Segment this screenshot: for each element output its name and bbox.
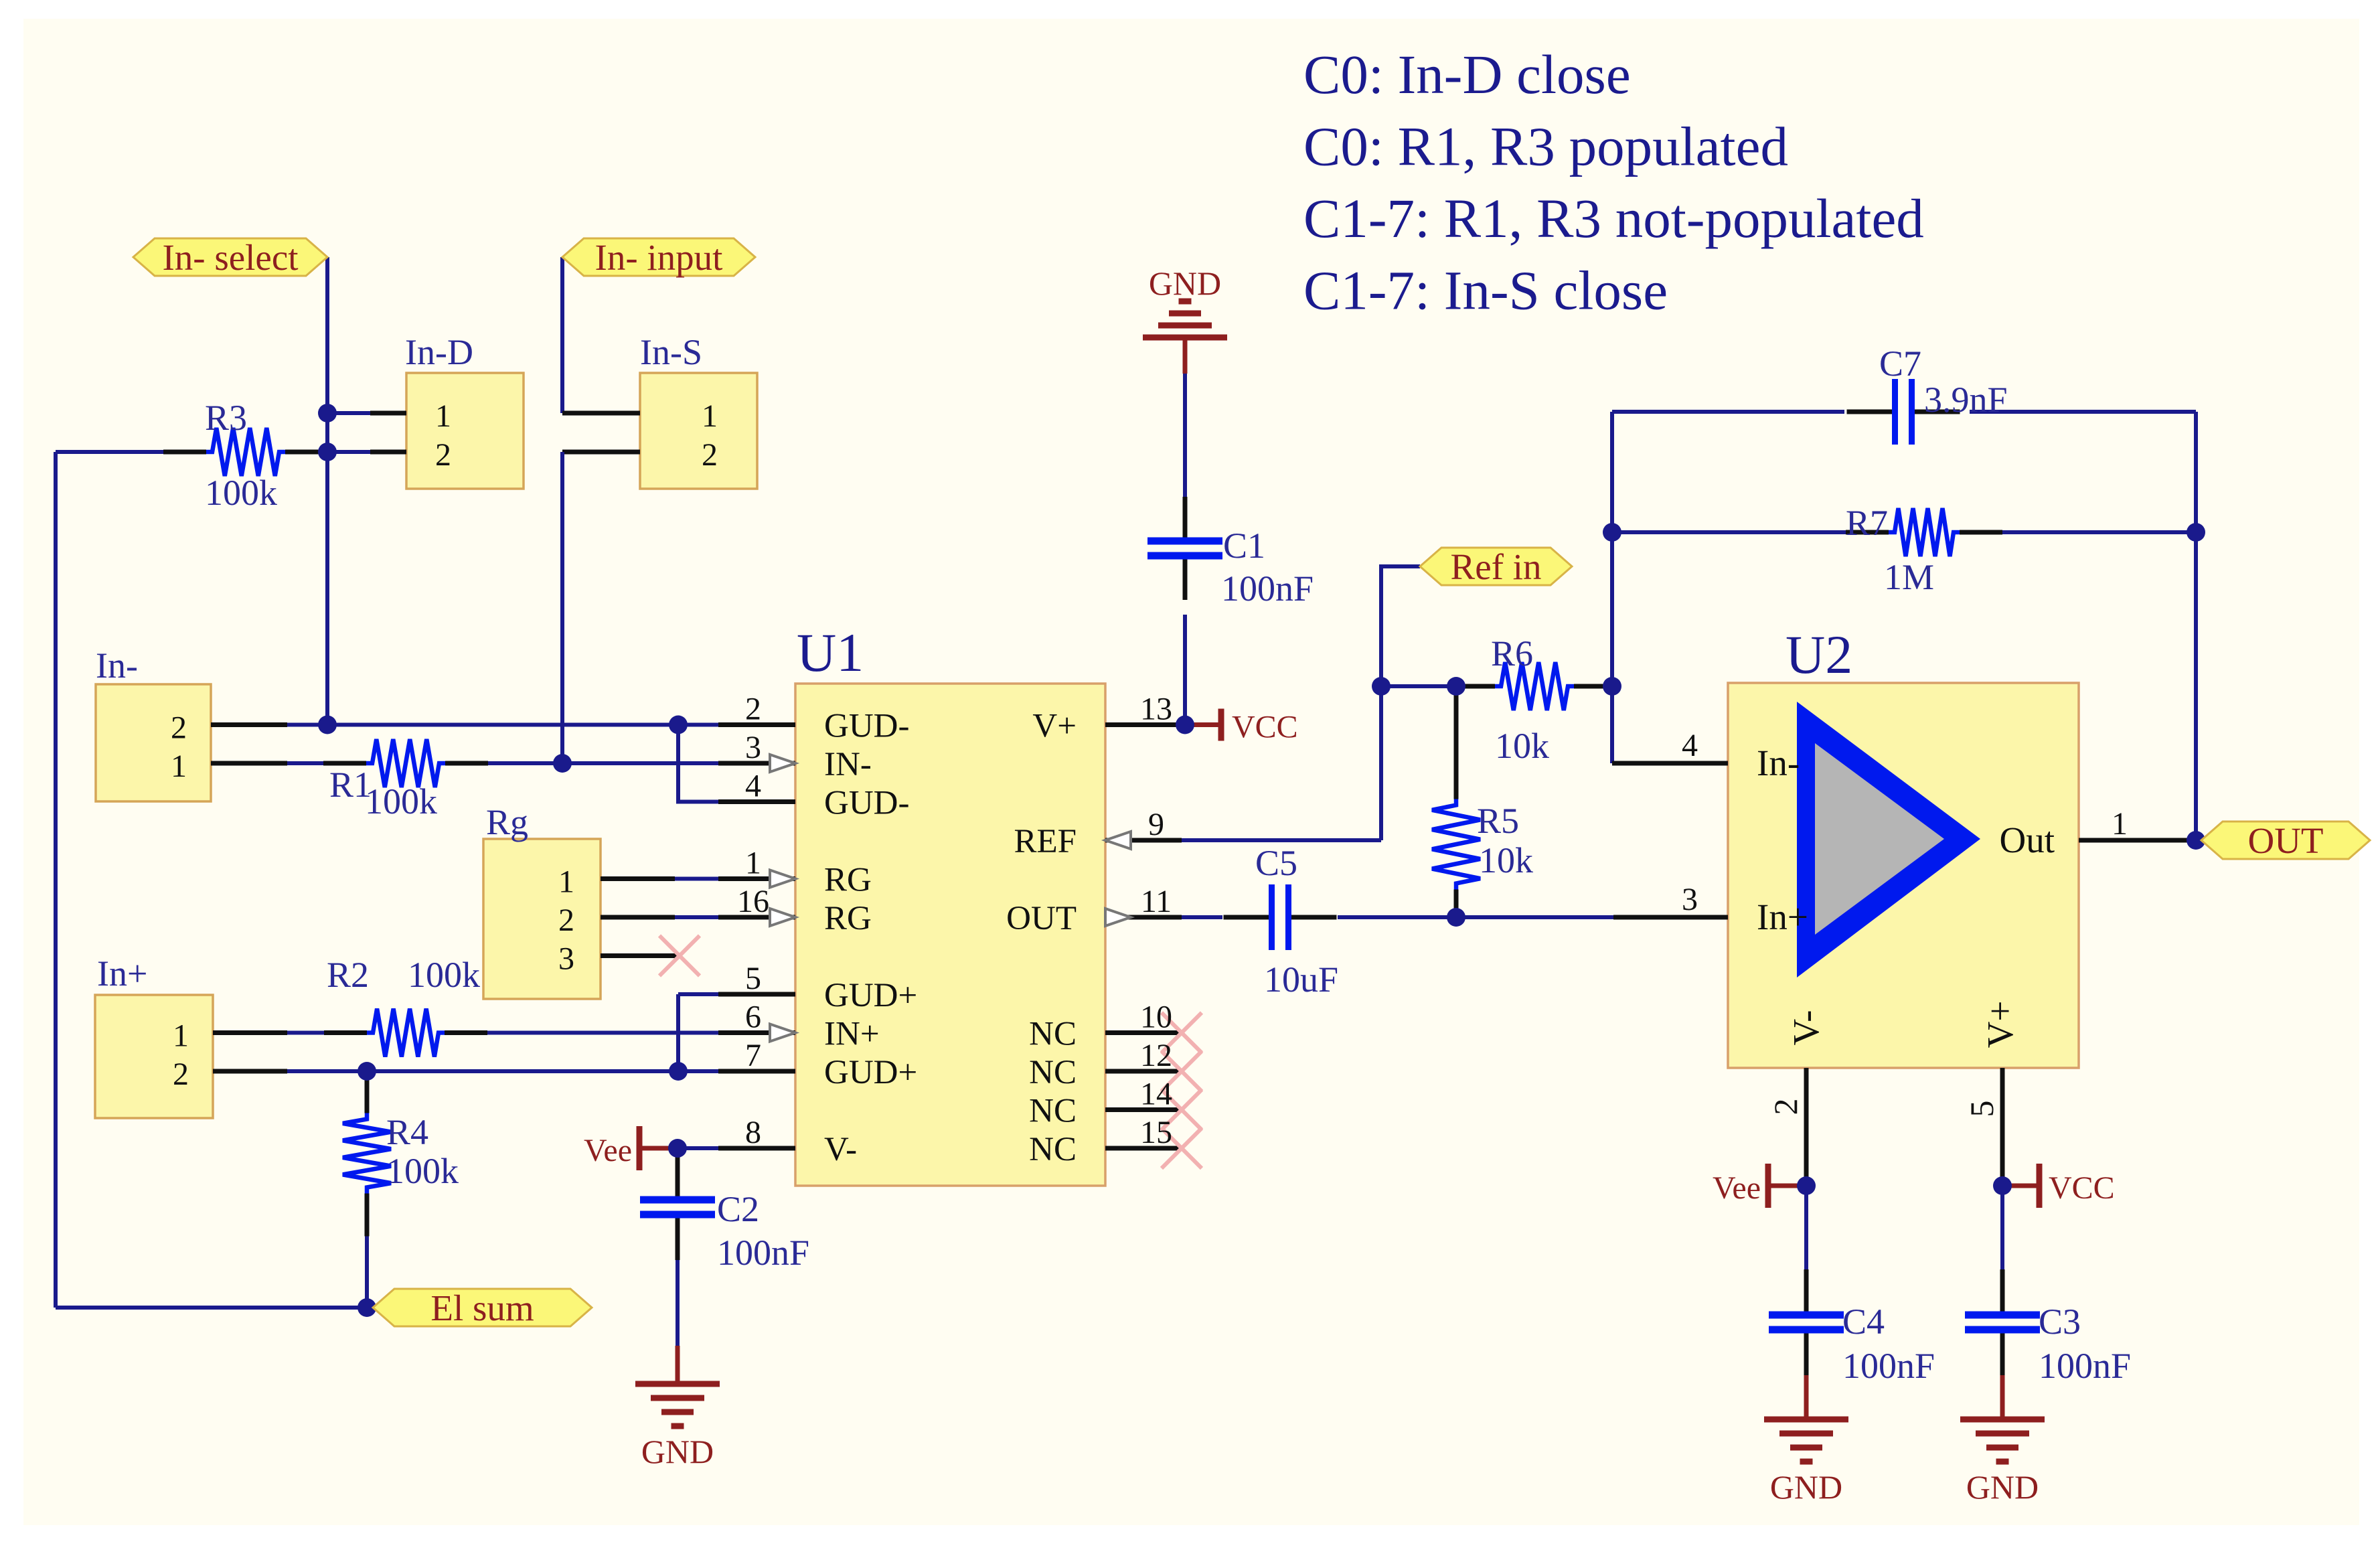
svg-text:100k: 100k — [365, 781, 437, 822]
value R5 10k — [1479, 840, 1533, 880]
arrow U1 pin6 input — [770, 1024, 795, 1042]
label In- — [96, 645, 138, 686]
wire Ref vertical — [1381, 566, 1420, 840]
svg-text:In-S: In-S — [640, 332, 702, 372]
wire In-D pin1 stub — [327, 411, 370, 415]
wire R2 to U1 pin6 — [479, 1031, 718, 1035]
svg-text:In-: In- — [1757, 742, 1800, 783]
svg-text:GUD-: GUD- — [824, 708, 909, 745]
wire In-S pin1 stub — [562, 411, 640, 416]
wire R7 right — [2002, 530, 2196, 534]
wire Rg pin1 to U1 pin1 — [675, 877, 718, 881]
U1 pin 9 stub — [1105, 838, 1182, 843]
svg-text:C0: R1, R3 populated: C0: R1, R3 populated — [1303, 116, 1788, 177]
svg-text:R3: R3 — [205, 398, 247, 438]
node In-select/R3/In-D2 — [318, 443, 337, 461]
resistor R2 — [324, 1009, 487, 1057]
resistor R7 — [1846, 508, 2002, 556]
svg-text:NC: NC — [1029, 1054, 1077, 1091]
svg-text:Rg: Rg — [486, 802, 528, 842]
svg-text:Vee: Vee — [584, 1133, 632, 1168]
node Vee/C4 — [1797, 1176, 1816, 1195]
svg-text:RG: RG — [824, 900, 872, 937]
label In-S — [640, 332, 702, 372]
wire In- pin2 to U1 pin2 — [287, 723, 718, 727]
node VCC/C1/pin13 — [1176, 716, 1194, 734]
wire U2 pin5 stub — [2000, 1068, 2005, 1186]
wire C1 lower to U1 pin13 — [1183, 615, 1187, 725]
label C7 — [1879, 343, 1921, 384]
svg-text:3.9nF: 3.9nF — [1924, 380, 2008, 420]
wire U2 pin4 stub — [1612, 761, 1728, 766]
node OUT — [2187, 831, 2205, 850]
svg-text:100k: 100k — [205, 473, 277, 513]
svg-text:2: 2 — [702, 437, 718, 473]
In-D pin numbers — [435, 398, 451, 473]
ground GND bottom C2 — [635, 1384, 720, 1470]
svg-text:1: 1 — [2112, 806, 2128, 842]
value R3 100k — [205, 473, 277, 513]
connector Rg box — [483, 839, 601, 999]
svg-text:GND: GND — [1149, 264, 1221, 302]
svg-text:1: 1 — [173, 1018, 189, 1054]
svg-text:OUT: OUT — [2247, 820, 2323, 861]
svg-text:V+: V+ — [1032, 708, 1077, 745]
svg-text:U1: U1 — [797, 622, 864, 683]
label C3 — [2039, 1302, 2081, 1342]
wire In- pin1 to R1 — [287, 761, 329, 765]
svg-text:R7: R7 — [1846, 503, 1888, 543]
label C1 — [1223, 526, 1265, 566]
svg-text:12: 12 — [1140, 1038, 1172, 1073]
svg-text:In- select: In- select — [162, 237, 298, 278]
svg-text:GUD+: GUD+ — [824, 1054, 917, 1091]
wire C3 gnd red — [2000, 1375, 2005, 1419]
port flag In- select — [133, 237, 327, 278]
wire In- input vertical upper — [560, 257, 564, 413]
port flag OUT — [2201, 820, 2370, 861]
resistor R6 — [1452, 662, 1617, 710]
arrow U1 pin16 input — [770, 909, 795, 926]
wire C2 to GND — [676, 1260, 680, 1347]
svg-text:100nF: 100nF — [1842, 1346, 1935, 1386]
svg-text:14: 14 — [1140, 1077, 1172, 1112]
U2 pin name In+ — [1757, 896, 1808, 937]
value R1 100k — [365, 781, 437, 822]
label R2 — [327, 955, 369, 995]
svg-text:C4: C4 — [1842, 1302, 1885, 1342]
svg-text:4: 4 — [745, 769, 761, 804]
wire VCC node to C3 — [2000, 1186, 2004, 1269]
node R7 right — [2187, 523, 2205, 542]
svg-text:In+: In+ — [97, 953, 147, 994]
connector In- box — [96, 684, 211, 801]
wire In+ pin1 to R2 — [287, 1031, 333, 1035]
wire In-D pin1 stub black — [370, 411, 406, 416]
U1 pin 8 stub — [718, 1146, 795, 1151]
svg-text:2: 2 — [745, 692, 761, 727]
svg-text:GUD+: GUD+ — [824, 977, 917, 1014]
value R2 100k — [408, 955, 480, 995]
svg-text:U2: U2 — [1786, 624, 1852, 685]
op-amp U2 box — [1728, 683, 2079, 1068]
svg-text:8: 8 — [745, 1115, 761, 1150]
svg-text:VCC: VCC — [2049, 1170, 2115, 1206]
arrow U1 pin9 input — [1105, 832, 1131, 849]
svg-text:Vee: Vee — [1713, 1170, 1761, 1206]
resistor R5 — [1432, 687, 1480, 917]
svg-text:5: 5 — [745, 961, 761, 996]
capacitor C1 — [1147, 497, 1222, 600]
U1 pin 14 stub — [1105, 1107, 1182, 1112]
notes text block — [1303, 44, 1924, 321]
value R4 100k — [386, 1151, 459, 1191]
svg-text:16: 16 — [737, 884, 769, 919]
U2 pin name Out — [2000, 819, 2055, 860]
wire C4 gnd red — [1804, 1375, 1809, 1419]
wire R4 bottom to El sum — [365, 1235, 369, 1308]
svg-text:7: 7 — [745, 1038, 761, 1073]
label U2 — [1786, 624, 1852, 685]
U1 pin 12 stub — [1105, 1069, 1182, 1074]
svg-text:1: 1 — [171, 749, 187, 784]
wire C5 to R5 node — [1338, 915, 1613, 919]
value C1 100nF — [1221, 568, 1314, 609]
wire R7 left — [1612, 530, 1846, 534]
svg-text:V-: V- — [1786, 1010, 1826, 1046]
wire In-S pin2 stub — [562, 450, 640, 455]
node R6/feedback — [1603, 677, 1621, 696]
svg-text:NC: NC — [1029, 1093, 1077, 1130]
label U1 — [797, 622, 864, 683]
wire feedback left vertical — [1610, 412, 1614, 763]
node R6/R5 — [1447, 677, 1465, 696]
svg-text:6: 6 — [745, 1000, 761, 1035]
svg-text:NC: NC — [1029, 1016, 1077, 1053]
svg-text:15: 15 — [1140, 1115, 1172, 1150]
wire In- pin1 stub black — [211, 761, 287, 766]
wire U2 pin1 stub — [2079, 838, 2188, 843]
resistor R4 — [343, 1071, 391, 1237]
node VCC/C3 — [1993, 1176, 2012, 1195]
svg-text:10: 10 — [1140, 1000, 1172, 1035]
svg-text:2: 2 — [173, 1057, 189, 1092]
wire In+ pin2 stub black — [213, 1069, 287, 1074]
wire Vee node to C4 — [1804, 1186, 1808, 1269]
svg-text:4: 4 — [1682, 728, 1698, 763]
U1 pin 3 stub — [718, 761, 795, 766]
capacitor C3 — [1965, 1269, 2040, 1375]
wire C2 gnd red — [676, 1346, 680, 1383]
svg-text:GND: GND — [641, 1433, 714, 1470]
U2 pin number 2 — [1767, 1099, 1804, 1115]
svg-text:IN+: IN+ — [824, 1016, 880, 1053]
U1 left pin names — [824, 708, 917, 1169]
power VCC at U2 pin5 — [2002, 1164, 2115, 1208]
wire left rail vertical — [54, 452, 58, 1308]
no-connect X U1 pin10 — [1162, 1013, 1202, 1053]
arrow U1 pin11 output — [1105, 909, 1131, 926]
wire Rg pin3 stub black — [601, 953, 680, 958]
svg-text:C1: C1 — [1223, 526, 1265, 566]
power VCC at U1 pin13 — [1185, 709, 1298, 745]
value C4 100nF — [1842, 1346, 1935, 1386]
node In-select/In- pin2 — [318, 716, 337, 734]
U1 pin 5 stub — [718, 992, 795, 997]
node In+2/R4 — [358, 1062, 376, 1081]
svg-text:R2: R2 — [327, 955, 369, 995]
svg-text:10uF: 10uF — [1264, 959, 1338, 1000]
U1 right pin names — [1006, 708, 1077, 1169]
svg-text:El sum: El sum — [430, 1287, 534, 1328]
svg-text:3: 3 — [1682, 882, 1698, 917]
capacitor C4 — [1769, 1269, 1844, 1375]
wire In+ pin2 to U1 pin7 — [287, 1069, 718, 1073]
label In+ — [97, 953, 147, 994]
svg-text:GUD-: GUD- — [824, 785, 909, 822]
wire C7 right — [1970, 410, 2196, 414]
svg-text:V+: V+ — [1980, 1001, 2020, 1048]
U1 left pin numbers — [737, 692, 769, 1151]
node R1/In-S — [553, 754, 572, 773]
wire In-D pin2 stub black — [370, 450, 406, 455]
U1 pin 6 stub — [718, 1030, 795, 1035]
arrow U1 pin3 input — [770, 755, 795, 772]
no-connect X U1 pin14 — [1162, 1090, 1202, 1130]
svg-text:In-D: In-D — [405, 332, 473, 372]
svg-text:10k: 10k — [1479, 840, 1533, 880]
U2 pin number 1 — [2112, 806, 2128, 842]
svg-text:2: 2 — [1767, 1099, 1804, 1115]
svg-text:IN-: IN- — [824, 746, 872, 783]
wire Rg pin2 to U1 pin16 — [675, 915, 718, 919]
node GUD- jog — [669, 716, 688, 734]
ground GND bottom C4 — [1764, 1419, 1848, 1506]
svg-text:V-: V- — [824, 1131, 857, 1168]
port flag El sum — [373, 1287, 592, 1328]
svg-text:2: 2 — [558, 903, 574, 938]
svg-text:GND: GND — [1770, 1468, 1842, 1506]
U2 pin name In- — [1757, 742, 1800, 783]
label C4 — [1842, 1302, 1885, 1342]
svg-text:9: 9 — [1148, 807, 1164, 842]
svg-text:1: 1 — [435, 398, 451, 434]
wire U1 pin8 to Vee node — [678, 1146, 718, 1150]
svg-text:RG: RG — [824, 862, 872, 899]
capacitor C2 — [640, 1154, 715, 1260]
svg-text:GND: GND — [1966, 1468, 2039, 1506]
In+ pin numbers — [173, 1018, 189, 1093]
wire U2 pin3 stub — [1613, 915, 1728, 920]
U1 pin 1 stub — [718, 876, 795, 881]
no-connect X Rg pin3 — [659, 936, 700, 976]
label In-D — [405, 332, 473, 372]
wire C7 left — [1612, 410, 1844, 414]
power Vee at U1 pin8 — [584, 1126, 678, 1170]
U1 pin 10 stub — [1105, 1030, 1182, 1035]
U1 pin 2 stub — [718, 722, 795, 727]
node R7 left — [1603, 523, 1621, 542]
svg-text:In-: In- — [96, 645, 138, 686]
svg-text:R4: R4 — [386, 1112, 428, 1152]
wire In+ pin1 stub black — [213, 1030, 287, 1035]
value C7 3.9nF — [1924, 380, 2008, 420]
svg-text:100k: 100k — [386, 1151, 459, 1191]
label C2 — [717, 1189, 759, 1229]
wire U1 pin9 to Ref corner — [1182, 838, 1381, 842]
label R7 — [1846, 503, 1888, 543]
svg-text:C1-7: R1, R3 not-populated: C1-7: R1, R3 not-populated — [1303, 187, 1924, 249]
wire U2 pin2 stub — [1804, 1068, 1809, 1186]
capacitor C5 — [1224, 884, 1337, 950]
wire U1 pin2-pin4 jog — [678, 725, 718, 802]
resistor R3 — [163, 428, 328, 476]
svg-text:11: 11 — [1141, 884, 1172, 919]
svg-text:1: 1 — [558, 864, 574, 900]
wire El sum horizontal — [56, 1306, 373, 1310]
value C3 100nF — [2039, 1346, 2131, 1386]
wire U2 out to OUT flag — [2188, 838, 2209, 842]
svg-text:100nF: 100nF — [717, 1233, 809, 1273]
svg-text:2: 2 — [171, 710, 187, 746]
wire Rg pin2 stub black — [601, 915, 675, 920]
wire R6 right to vertical — [1571, 684, 1612, 688]
wire GND to C1 upper — [1183, 372, 1187, 499]
label R3 — [205, 398, 247, 438]
label Rg — [486, 802, 528, 842]
port flag Ref in — [1420, 546, 1572, 587]
svg-text:1: 1 — [702, 398, 718, 434]
value C5 10uF — [1264, 959, 1338, 1000]
U1 pin 15 stub — [1105, 1146, 1182, 1151]
port flag In- input — [562, 237, 755, 278]
U1 pin 13 stub — [1105, 722, 1182, 727]
label R1 — [329, 765, 372, 805]
resistor R1 — [323, 739, 488, 787]
U1 pin 16 stub — [718, 915, 795, 920]
label R5 — [1477, 801, 1519, 841]
connector In-S box — [640, 373, 757, 489]
IC U1 box — [795, 684, 1105, 1186]
wire GND stem red — [1183, 337, 1188, 374]
wire In-S pin2 vertical down — [560, 452, 564, 763]
svg-text:5: 5 — [1963, 1101, 2000, 1117]
power Vee at U2 pin2 — [1713, 1164, 1806, 1208]
svg-text:100nF: 100nF — [1221, 568, 1314, 609]
svg-text:Out: Out — [2000, 819, 2055, 860]
U1 pin 4 stub — [718, 799, 795, 804]
ground GND top (C1) — [1143, 264, 1227, 337]
svg-text:C3: C3 — [2039, 1302, 2081, 1342]
svg-text:In- input: In- input — [595, 237, 723, 278]
node Ref/R6 — [1372, 677, 1391, 696]
node GUD+ jog — [669, 1062, 688, 1081]
svg-text:13: 13 — [1140, 692, 1172, 727]
label R6 — [1491, 633, 1533, 674]
svg-text:REF: REF — [1014, 823, 1077, 860]
connector In+ box — [95, 995, 213, 1118]
U1 right pin numbers — [1140, 692, 1172, 1151]
svg-text:NC: NC — [1029, 1131, 1077, 1168]
svg-text:C0: In-D close: C0: In-D close — [1303, 44, 1631, 105]
node Vee/C2 — [668, 1139, 687, 1158]
svg-text:100nF: 100nF — [2039, 1346, 2131, 1386]
Rg pin numbers — [558, 864, 574, 977]
wire U1 pin5 jog horizontal — [678, 992, 718, 996]
svg-text:100k: 100k — [408, 955, 480, 995]
wire In- pin2 stub black — [211, 722, 287, 727]
wire Rg pin1 stub black — [601, 876, 675, 881]
In- pin numbers — [171, 710, 187, 785]
no-connect X U1 pin12 — [1162, 1051, 1202, 1091]
U1 pin 7 stub — [718, 1069, 795, 1074]
no-connect X U1 pin15 — [1162, 1128, 1202, 1168]
label C5 — [1255, 843, 1297, 883]
svg-text:R6: R6 — [1491, 633, 1533, 674]
U2 pin name V- — [1786, 1010, 1826, 1046]
ground GND bottom C3 — [1960, 1419, 2045, 1506]
arrow U1 pin1 input — [770, 870, 795, 888]
capacitor C7 — [1847, 379, 1960, 445]
connector In-D box — [406, 373, 524, 489]
svg-text:2: 2 — [435, 437, 451, 473]
svg-text:C5: C5 — [1255, 843, 1297, 883]
value R7 1M — [1884, 557, 1934, 597]
wire U1 pin11 to C5 — [1182, 915, 1222, 919]
svg-text:R5: R5 — [1477, 801, 1519, 841]
wire feedback right vertical — [2194, 412, 2198, 840]
value C2 100nF — [717, 1233, 809, 1273]
U2 pin number 5 — [1963, 1101, 2000, 1117]
wire R3 left to left rail — [56, 450, 174, 454]
svg-text:C2: C2 — [717, 1189, 759, 1229]
wire U1 pin5-pin7 jog — [676, 994, 680, 1071]
node In-select/In-D1 — [318, 404, 337, 422]
wire In-D pin2 stub — [327, 450, 370, 454]
wire R1 to U1 pin3 — [477, 761, 718, 765]
U2 pin number 3 — [1682, 882, 1698, 917]
In-S pin numbers — [702, 398, 718, 473]
value R6 10k — [1495, 726, 1549, 766]
U2 pin number 4 — [1682, 728, 1698, 763]
svg-text:3: 3 — [558, 941, 574, 977]
svg-text:Ref in: Ref in — [1451, 546, 1542, 587]
svg-text:OUT: OUT — [1006, 900, 1077, 937]
wire In- select vertical — [325, 257, 329, 725]
label R4 — [386, 1112, 428, 1152]
svg-text:C7: C7 — [1879, 343, 1921, 384]
svg-text:1: 1 — [745, 846, 761, 881]
svg-text:In+: In+ — [1757, 896, 1808, 937]
svg-text:3: 3 — [745, 730, 761, 765]
op-amp U2 triangle — [1797, 702, 1980, 977]
wire Ref to R6 — [1381, 684, 1456, 688]
svg-text:1M: 1M — [1884, 557, 1934, 597]
node R5/C5/U2 in+ — [1447, 908, 1465, 927]
U1 pin 11 stub — [1105, 915, 1182, 920]
svg-text:C1-7: In-S close: C1-7: In-S close — [1303, 260, 1668, 321]
svg-text:10k: 10k — [1495, 726, 1549, 766]
svg-text:VCC: VCC — [1232, 710, 1298, 745]
node El sum/R4 — [358, 1298, 376, 1317]
U2 pin name V+ — [1980, 1001, 2020, 1048]
